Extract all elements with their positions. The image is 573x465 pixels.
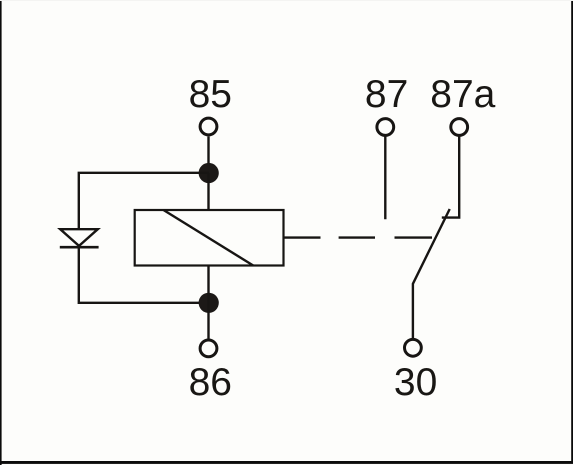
wire terminal 85 to junction xyxy=(207,136,209,172)
junction dot bottom (node 86/coil/diode) xyxy=(199,293,219,313)
terminal 85 pin circle xyxy=(200,118,217,135)
wire junction to coil top xyxy=(207,173,209,210)
page border left xyxy=(0,0,2,465)
switch blade (common armature) xyxy=(413,209,450,338)
armature link dash 1 xyxy=(339,236,375,238)
wire coil bottom through junction to terminal 86 xyxy=(207,266,209,340)
armature link dash 2 xyxy=(395,236,433,238)
svg-text:87: 87 xyxy=(365,73,408,116)
wire terminal 87 to NO contact xyxy=(384,136,386,219)
diode D1 triangle (anode) xyxy=(60,229,98,246)
page border top xyxy=(0,0,573,1)
relay coil K1 body xyxy=(135,210,284,266)
junction dot top (node 85/coil/diode) xyxy=(199,163,219,183)
terminal 87a pin circle xyxy=(451,119,468,136)
svg-text:85: 85 xyxy=(189,73,232,116)
wire terminal 87a to NC contact xyxy=(442,136,459,217)
wire junction to diode anode xyxy=(79,173,209,229)
page border right xyxy=(571,0,573,463)
terminal 86 pin circle xyxy=(200,340,217,357)
svg-text:86: 86 xyxy=(189,361,232,404)
svg-text:30: 30 xyxy=(394,361,437,404)
page border bottom xyxy=(0,461,573,464)
wire diode cathode to bottom junction xyxy=(79,247,209,303)
armature link stub from coil xyxy=(284,236,321,238)
diode D1 cathode bar xyxy=(60,246,99,249)
terminal 87 pin circle xyxy=(377,119,394,136)
svg-text:87a: 87a xyxy=(430,73,495,116)
terminal 30 pin circle xyxy=(405,339,422,356)
relay coil K1 diagonal xyxy=(164,210,254,266)
